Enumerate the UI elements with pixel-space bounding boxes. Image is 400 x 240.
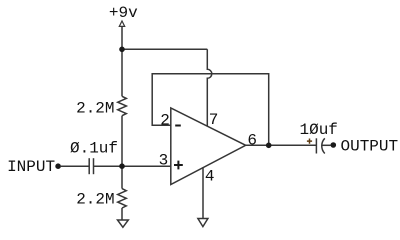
svg-text:2.2M: 2.2M (76, 100, 114, 118)
svg-text:+9v: +9v (109, 4, 138, 22)
svg-text:2: 2 (160, 111, 170, 129)
svg-text:2.2M: 2.2M (76, 191, 114, 209)
svg-text:4: 4 (205, 168, 215, 186)
svg-text:OUTPUT: OUTPUT (340, 138, 398, 156)
svg-text:3: 3 (159, 151, 169, 169)
svg-text:6: 6 (247, 132, 257, 150)
svg-text:1Øuf: 1Øuf (299, 121, 337, 139)
svg-text:INPUT: INPUT (7, 158, 55, 176)
svg-text:7: 7 (209, 111, 219, 129)
svg-text:Ø.1uf: Ø.1uf (70, 139, 118, 157)
